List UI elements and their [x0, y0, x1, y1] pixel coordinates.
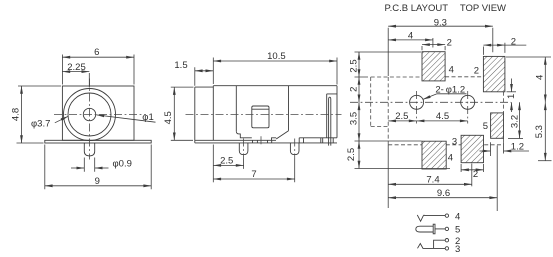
- chain seg 2.5 top: [358, 52, 360, 77]
- legend pin2 row: [434, 240, 446, 248]
- pad pin4 bottom: [422, 141, 446, 169]
- dim 1.2 arrows: [480, 150, 491, 152]
- dim 10.5: [213, 60, 337, 62]
- dim 2 pad4 width: [422, 46, 445, 50]
- chain seg 3.5: [358, 102, 360, 141]
- svg-text:2: 2: [473, 169, 478, 180]
- side contact strip: [329, 97, 331, 145]
- front flange: [45, 140, 151, 143]
- svg-text:9.6: 9.6: [437, 188, 450, 199]
- svg-text:1: 1: [506, 94, 517, 99]
- svg-text:φ0.9: φ0.9: [113, 158, 132, 169]
- legend pin5 row: [416, 226, 433, 232]
- chain seg 2: [358, 77, 360, 102]
- svg-text:4: 4: [535, 75, 546, 80]
- dim 2 pad3: [461, 164, 483, 172]
- legend pin3 row: [418, 244, 446, 249]
- dim 9.3 extensions: [388, 28, 493, 76]
- dim 4.5 extensions: [171, 87, 194, 140]
- hole 1: [410, 95, 424, 109]
- dim 7.4 left/right extensions: [388, 145, 497, 211]
- svg-text:3: 3: [455, 244, 460, 255]
- dim 1 arrows: [511, 79, 513, 92]
- dim 9: [45, 185, 151, 187]
- svg-text:2.5: 2.5: [220, 156, 233, 167]
- dim 2 pad2 width: [483, 43, 505, 55]
- svg-text:P.C.B LAYOUT: P.C.B LAYOUT: [385, 3, 449, 14]
- side top-right step: [327, 94, 337, 138]
- side flange bottom line: [195, 142, 337, 144]
- dim 2.5 / 4.5 holes: [388, 120, 416, 122]
- svg-text:4: 4: [455, 212, 460, 223]
- svg-text:7: 7: [251, 169, 256, 180]
- front body square: [62, 86, 134, 140]
- svg-text:1.5: 1.5: [174, 60, 187, 71]
- dim 4.8: [21, 86, 23, 143]
- pad3 center extension: [471, 164, 473, 187]
- dim 5.3: [544, 102, 546, 160]
- svg-text:4: 4: [408, 31, 413, 42]
- pad pin2 top: [483, 56, 505, 91]
- dim 4 right: [544, 57, 546, 102]
- side body outline: [195, 86, 337, 143]
- hole 1 centerline: [416, 91, 418, 124]
- front pin (phi 0.9): [84, 143, 94, 156]
- svg-text:3: 3: [452, 137, 457, 148]
- dim 9 extensions: [45, 145, 151, 190]
- side pin centerlines: [244, 139, 295, 159]
- svg-text:4.8: 4.8: [11, 108, 22, 121]
- svg-text:9: 9: [95, 176, 100, 187]
- svg-text:2.5: 2.5: [395, 111, 408, 122]
- center hole (phi 1): [83, 108, 95, 120]
- dim 6 extension lines: [62, 55, 134, 85]
- svg-text:3.5: 3.5: [349, 112, 360, 125]
- dim 3.2: [519, 102, 521, 138]
- svg-text:4: 4: [449, 64, 454, 75]
- dim 9.3: [388, 25, 493, 27]
- front horizontal centerline: [54, 114, 146, 116]
- svg-text:2.5: 2.5: [346, 148, 357, 161]
- ring circle (phi 3.7): [68, 93, 111, 136]
- dim 1.2 ticks: [491, 142, 504, 156]
- svg-text:7.4: 7.4: [426, 174, 439, 185]
- dim phi0.9 extensions: [84, 158, 94, 172]
- svg-text:5: 5: [455, 224, 460, 235]
- dim 9.6: [388, 197, 497, 199]
- svg-text:4.5: 4.5: [436, 111, 449, 122]
- svg-text:φ3.7: φ3.7: [31, 119, 50, 130]
- dim 3.2 extension: [508, 138, 523, 140]
- main centerline pcb: [350, 101, 511, 103]
- dim 1.5: [195, 70, 214, 72]
- left chain extension lines: [355, 52, 451, 169]
- side division line 2: [288, 86, 290, 131]
- dim 1 extension: [507, 91, 517, 93]
- side pin 1: [239, 143, 248, 155]
- svg-text:2.5: 2.5: [349, 59, 360, 72]
- outer circle: [64, 89, 116, 141]
- svg-text:TOP VIEW: TOP VIEW: [460, 3, 506, 14]
- side division line 1: [235, 86, 237, 132]
- svg-text:2: 2: [474, 66, 479, 77]
- svg-text:6: 6: [94, 47, 99, 58]
- svg-text:1.2: 1.2: [511, 142, 524, 153]
- side bottom shelf: [299, 138, 337, 143]
- svg-text:9.3: 9.3: [434, 17, 447, 28]
- dim phi0.9 arrows: [71, 167, 84, 169]
- side square hole center tick: [260, 136, 262, 146]
- dim 7: [213, 178, 294, 180]
- svg-text:5: 5: [483, 121, 488, 132]
- side square hole seam: [252, 108, 269, 110]
- pad pin4 top: [422, 52, 445, 81]
- dim 2.25 extension: [88, 73, 90, 88]
- svg-text:2: 2: [349, 87, 360, 92]
- svg-text:4.5: 4.5: [163, 111, 174, 124]
- svg-text:2: 2: [511, 37, 516, 48]
- dim 4.5: [173, 87, 175, 140]
- dim 2.25: [62, 71, 89, 73]
- side centerline: [186, 114, 342, 116]
- dim 10.5 extension: [336, 58, 338, 85]
- dim 7.4: [388, 183, 472, 185]
- front vertical centerline: [89, 79, 91, 160]
- dim 2.5 side: [213, 164, 243, 166]
- dim 4 top: [432, 38, 434, 48]
- side body bottom line: [195, 139, 276, 141]
- dim 1.5 extensions: [195, 58, 214, 86]
- dim 4 right extension: [506, 56, 551, 58]
- legend pin4 row: [417, 215, 445, 221]
- pad pin5: [491, 113, 504, 138]
- pad pin3: [461, 135, 483, 162]
- side bottom step left: [236, 131, 252, 138]
- dim 5.3 extension: [538, 160, 552, 162]
- dim 6: [62, 56, 134, 58]
- svg-text:3.2: 3.2: [510, 115, 521, 128]
- chain seg 2.5 bottom: [358, 141, 360, 169]
- side pin ext lines: [244, 159, 295, 183]
- side pin 2: [290, 143, 299, 155]
- svg-text:2.25: 2.25: [67, 62, 86, 73]
- svg-text:2: 2: [447, 38, 452, 49]
- dim 4.8 extensions: [17, 86, 62, 143]
- svg-text:10.5: 10.5: [267, 51, 286, 62]
- side bottom ticks: [253, 140, 272, 143]
- svg-text:4: 4: [448, 153, 453, 164]
- footprint dashed outline: [371, 77, 504, 145]
- svg-text:5.3: 5.3: [534, 125, 545, 138]
- dim 2.5 extension: [212, 145, 214, 183]
- hole 2 centerline: [467, 91, 469, 124]
- hole 2: [461, 95, 475, 109]
- side bottom chamfer right: [272, 131, 289, 141]
- side square hole: [252, 106, 269, 128]
